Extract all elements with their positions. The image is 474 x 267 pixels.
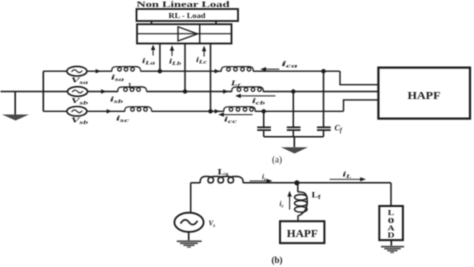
svg-text:Vsb: Vsb <box>71 97 89 107</box>
wire RL-load left connector <box>151 21 153 24</box>
svg-text:Ls: Ls <box>129 82 136 92</box>
node dot c-cap1 <box>262 109 266 113</box>
RL-Load box <box>137 9 239 21</box>
svg-text:Non Linear Load: Non Linear Load <box>137 0 231 9</box>
svg-text:Ls: Ls <box>218 168 230 179</box>
arrow is <box>250 179 273 183</box>
wire phase c right <box>255 110 344 112</box>
wire rectifier leg b <box>184 44 186 92</box>
rectifier mid line <box>137 33 232 35</box>
capacitor Cf1 <box>263 111 265 126</box>
wire RL-load right connector <box>215 21 217 24</box>
wire rectifier leg a <box>159 44 161 72</box>
svg-text:(a): (a) <box>272 155 282 165</box>
wire phase b left <box>88 91 119 93</box>
svg-text:isc: isc <box>116 115 130 125</box>
ground mid <box>293 137 295 148</box>
inductor Lsc <box>125 107 152 112</box>
wire phase b right <box>263 91 378 93</box>
arrow iLc <box>202 46 206 57</box>
svg-text:icb: icb <box>252 97 266 107</box>
label LOAD <box>388 208 396 240</box>
source Vsc <box>67 107 87 117</box>
inductor Lsa <box>112 67 141 72</box>
svg-text:Vs: Vs <box>209 220 216 230</box>
wire top b mid <box>243 182 391 184</box>
wire phase c to HAPF <box>344 100 379 111</box>
svg-text:isa: isa <box>111 73 125 83</box>
wire bus vertical <box>42 71 44 111</box>
wire top b left <box>191 182 201 184</box>
arrowhead into Lfb <box>223 89 228 93</box>
arrow iL <box>330 177 366 181</box>
ground source b <box>188 232 190 240</box>
wire cap bottom <box>264 136 324 138</box>
source Vsb <box>68 87 88 97</box>
svg-text:Vsa: Vsa <box>71 77 89 87</box>
svg-text:isb: isb <box>110 96 124 106</box>
node dot b-cap2 <box>291 89 295 93</box>
wire source up <box>190 183 192 213</box>
wire phase c left <box>87 110 125 112</box>
HAPF box a <box>378 68 470 119</box>
inductor Lf b <box>298 192 307 197</box>
wire phase a mid <box>141 70 222 72</box>
svg-text:Cf: Cf <box>335 124 343 135</box>
svg-text:(b): (b) <box>272 255 283 265</box>
wire stub a <box>43 70 67 72</box>
wire neutral horizontal <box>1 91 68 93</box>
svg-text:icc: icc <box>224 116 238 126</box>
ground load <box>390 240 392 246</box>
HAPF box b <box>280 221 324 243</box>
svg-text:ic: ic <box>280 200 285 210</box>
capacitor Cf3 <box>323 71 325 126</box>
inductor Lfb <box>232 87 263 92</box>
wire rectifier leg c <box>210 44 212 112</box>
inductor Lfc <box>224 107 255 112</box>
wire phase c mid <box>152 110 225 112</box>
svg-text:iLc: iLc <box>196 56 208 66</box>
arrow iLa <box>151 45 155 56</box>
wire down to load <box>390 183 392 206</box>
wire phase a left <box>87 70 112 72</box>
arrow iLb <box>170 45 174 56</box>
capacitor Cf2 <box>292 92 294 127</box>
svg-text:Vsb: Vsb <box>71 117 89 127</box>
svg-text:D: D <box>388 230 396 239</box>
arrow ica <box>260 67 279 71</box>
arrow ic <box>287 191 291 210</box>
svg-text:ica: ica <box>282 60 299 70</box>
source Vs <box>174 213 203 232</box>
svg-text:Lf: Lf <box>312 191 321 202</box>
arrowhead into Lfa <box>215 69 220 73</box>
arrow icb <box>235 94 275 98</box>
rectifier divider <box>199 24 201 43</box>
svg-text:HAPF: HAPF <box>408 90 441 102</box>
svg-text:iLa: iLa <box>142 57 156 67</box>
node dot b <box>294 180 299 185</box>
arrow icc <box>218 112 252 116</box>
svg-text:RL - Load: RL - Load <box>169 11 207 20</box>
node dot a-cap3 <box>321 69 325 73</box>
node dot b-rect <box>183 89 187 93</box>
inductor Lsb <box>118 87 147 92</box>
arrowhead into Lfc <box>215 109 220 113</box>
inductor Lsb2 <box>200 176 243 183</box>
svg-text:HAPF: HAPF <box>287 229 318 240</box>
rectifier box U1 <box>137 24 232 43</box>
wire phase b mid <box>147 91 233 93</box>
rectifier diode triangle <box>178 27 198 41</box>
svg-text:iLb: iLb <box>169 58 182 68</box>
wire stub c <box>43 110 67 112</box>
node dot c-rect <box>208 109 212 113</box>
LOAD box <box>379 206 403 240</box>
wire node down <box>297 183 299 192</box>
node dot a-rect <box>158 69 162 73</box>
wire phase a to HAPF <box>340 71 378 85</box>
source Vsa <box>67 66 87 76</box>
inductor Lfa <box>221 67 253 72</box>
wire phase a right <box>253 70 340 72</box>
svg-text:iL: iL <box>343 171 352 181</box>
ground left <box>14 92 16 115</box>
